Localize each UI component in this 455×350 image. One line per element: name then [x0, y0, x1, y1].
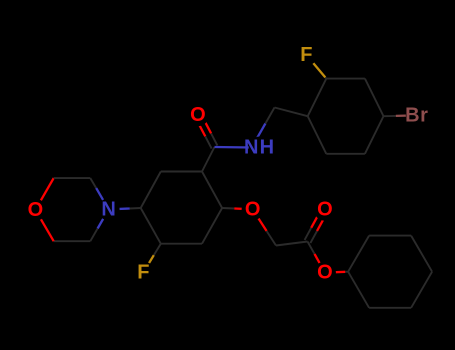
- wire bond ring-amideC: [202, 147, 215, 172]
- wire bond O-CH2: [253, 209, 276, 245]
- wire bond morpholine C-C top: [54, 177, 91, 179]
- wire double bond ester C=O: [305, 208, 328, 243]
- svg-text:O: O: [317, 262, 333, 284]
- wire bond C-Br: [384, 115, 411, 118]
- wire bond morpholine O-C: [35, 178, 53, 210]
- wire bond central ring C2-C3: [161, 171, 202, 173]
- svg-text:O: O: [317, 199, 333, 221]
- label background clips: [24, 44, 435, 284]
- svg-text:Br: Br: [405, 105, 428, 127]
- wire bond central ring C3-C4: [202, 172, 222, 209]
- wire bond ester ring R6-R1: [348, 272, 369, 308]
- svg-text:O: O: [245, 198, 261, 220]
- wire bond C-F central: [143, 244, 160, 273]
- wire bond central ring C1-C2: [141, 172, 161, 209]
- wire bond CH2-aryl: [275, 108, 308, 117]
- svg-text:F: F: [300, 44, 312, 66]
- wire double bond amide C=O: [195, 114, 217, 149]
- wire bond morpholine N-C bottom: [90, 209, 108, 241]
- wire bond central ring C5-C6: [161, 243, 202, 245]
- wire bond CH2-C(=O): [276, 242, 308, 246]
- wire bond N-aryl: [109, 208, 141, 209]
- wire bond right ring B4-B5: [365, 116, 384, 154]
- wire bond O-cyclohexyl: [325, 271, 348, 274]
- wire bond right ring B2-B3: [326, 78, 365, 80]
- wire bond ester ring R2-R3: [369, 235, 411, 237]
- wire bond ester ring R3-R4: [411, 236, 432, 272]
- wire bond right ring B6-B1: [308, 116, 327, 154]
- wire bond N-CH2: [252, 108, 275, 148]
- wire bond C-F right: [306, 55, 326, 79]
- wire bond ester ring R1-R2: [348, 236, 369, 272]
- svg-text:O: O: [190, 104, 206, 126]
- wire bond morpholine C-O bottom: [35, 210, 53, 241]
- svg-text:F: F: [137, 261, 149, 283]
- wire bond aryl-O: [222, 208, 253, 209]
- wire bond ester ring R4-R5: [411, 272, 432, 308]
- wire bond central ring C6-C1: [141, 208, 161, 244]
- wire bond morpholine C-N top: [90, 178, 108, 209]
- wire bond right ring B1-B2: [308, 79, 327, 117]
- wire bond amide C-N: [215, 146, 252, 149]
- wire bond right ring B5-B6: [326, 153, 365, 155]
- svg-text:O: O: [28, 199, 44, 221]
- wire bond C-Oester: [308, 242, 325, 273]
- svg-text:NH: NH: [244, 137, 276, 159]
- wire bond right ring B3-B4: [365, 79, 384, 117]
- wire bond ester ring R5-R6: [369, 307, 411, 309]
- wire bond central ring C4-C5: [202, 208, 222, 244]
- svg-text:N: N: [101, 198, 115, 220]
- wire bond morpholine C-C bottom: [54, 240, 91, 242]
